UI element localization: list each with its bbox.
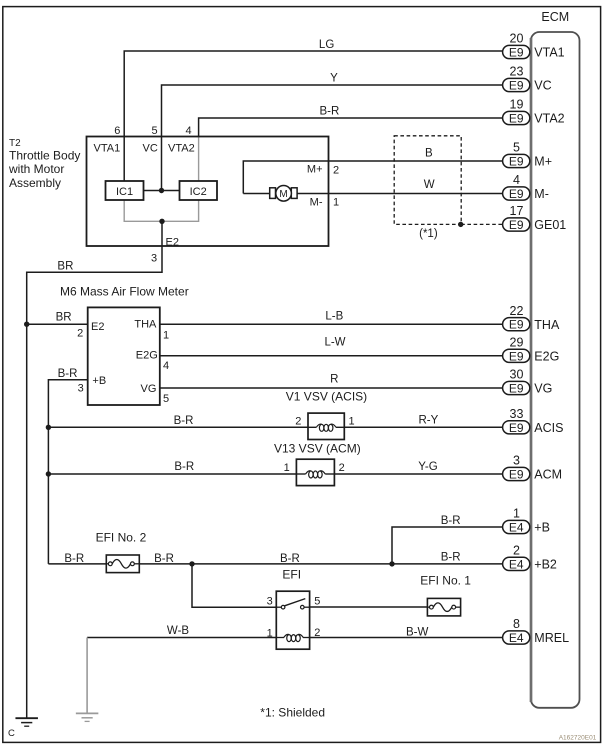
svg-text:EFI No. 1: EFI No. 1 bbox=[420, 574, 471, 588]
svg-text:BR: BR bbox=[57, 261, 73, 273]
svg-text:E2: E2 bbox=[166, 236, 179, 248]
svg-text:1: 1 bbox=[513, 507, 520, 521]
svg-text:GE01: GE01 bbox=[534, 218, 566, 232]
svg-text:W-B: W-B bbox=[167, 625, 189, 637]
svg-text:E2G: E2G bbox=[534, 349, 559, 363]
svg-text:(*1): (*1) bbox=[419, 228, 438, 240]
svg-text:B: B bbox=[425, 148, 433, 160]
svg-text:+B: +B bbox=[534, 521, 550, 535]
svg-text:3: 3 bbox=[267, 596, 273, 608]
svg-text:E2G: E2G bbox=[136, 349, 158, 361]
svg-text:2: 2 bbox=[333, 165, 339, 177]
svg-text:5: 5 bbox=[314, 595, 320, 607]
svg-text:1: 1 bbox=[284, 462, 290, 474]
svg-text:33: 33 bbox=[510, 407, 524, 421]
svg-text:M: M bbox=[279, 189, 287, 200]
svg-text:2: 2 bbox=[339, 462, 345, 474]
svg-text:E4: E4 bbox=[509, 631, 524, 645]
svg-text:B-R: B-R bbox=[174, 461, 194, 473]
svg-text:VTA2: VTA2 bbox=[534, 112, 564, 126]
svg-text:V13 VSV (ACM): V13 VSV (ACM) bbox=[274, 441, 361, 455]
svg-text:E4: E4 bbox=[509, 521, 524, 535]
svg-text:B-R: B-R bbox=[64, 553, 84, 565]
svg-text:3: 3 bbox=[513, 454, 520, 468]
svg-text:*1: Shielded: *1: Shielded bbox=[260, 706, 325, 720]
svg-text:B-R: B-R bbox=[441, 515, 461, 527]
svg-text:20: 20 bbox=[510, 32, 524, 46]
svg-text:2: 2 bbox=[77, 328, 83, 340]
svg-text:4: 4 bbox=[185, 125, 191, 137]
svg-text:6: 6 bbox=[114, 125, 120, 137]
svg-text:17: 17 bbox=[510, 204, 524, 218]
svg-text:T2: T2 bbox=[9, 138, 21, 149]
svg-text:ACIS: ACIS bbox=[534, 421, 563, 435]
svg-text:BR: BR bbox=[56, 312, 72, 324]
svg-text:5: 5 bbox=[163, 393, 169, 405]
svg-text:IC2: IC2 bbox=[190, 186, 207, 198]
svg-text:E9: E9 bbox=[509, 421, 524, 435]
svg-text:B-R: B-R bbox=[441, 552, 461, 564]
svg-text:EFI: EFI bbox=[282, 567, 301, 581]
svg-text:B-R: B-R bbox=[154, 553, 174, 565]
svg-text:22: 22 bbox=[510, 304, 524, 318]
svg-text:29: 29 bbox=[510, 336, 524, 350]
svg-text:E9: E9 bbox=[509, 46, 524, 60]
svg-text:19: 19 bbox=[510, 98, 524, 112]
svg-text:B-R: B-R bbox=[58, 368, 78, 380]
svg-text:A162720E01: A162720E01 bbox=[559, 735, 597, 742]
svg-text:LG: LG bbox=[319, 39, 334, 51]
svg-text:with Motor: with Motor bbox=[8, 162, 64, 176]
svg-text:E9: E9 bbox=[509, 155, 524, 169]
svg-text:M+: M+ bbox=[307, 164, 323, 176]
svg-text:5: 5 bbox=[513, 141, 520, 155]
svg-text:Y: Y bbox=[330, 73, 338, 85]
svg-text:E4: E4 bbox=[509, 557, 524, 571]
svg-text:3: 3 bbox=[151, 252, 157, 264]
svg-text:+B2: +B2 bbox=[534, 558, 557, 572]
svg-text:E9: E9 bbox=[509, 349, 524, 363]
svg-text:L-B: L-B bbox=[325, 311, 343, 323]
svg-text:R: R bbox=[330, 374, 338, 386]
svg-text:VTA2: VTA2 bbox=[168, 143, 195, 155]
svg-text:2: 2 bbox=[513, 544, 520, 558]
svg-text:VC: VC bbox=[534, 79, 551, 93]
svg-text:M-: M- bbox=[534, 187, 549, 201]
svg-text:VTA1: VTA1 bbox=[94, 143, 121, 155]
svg-text:M+: M+ bbox=[534, 155, 552, 169]
svg-text:EFI No. 2: EFI No. 2 bbox=[96, 531, 147, 545]
svg-text:M6 Mass Air Flow Meter: M6 Mass Air Flow Meter bbox=[60, 285, 189, 299]
svg-text:2: 2 bbox=[295, 416, 301, 428]
svg-text:1: 1 bbox=[163, 330, 169, 342]
svg-text:4: 4 bbox=[513, 173, 520, 187]
svg-text:B-W: B-W bbox=[406, 627, 429, 639]
svg-text:+B: +B bbox=[92, 375, 106, 387]
svg-text:4: 4 bbox=[163, 360, 169, 372]
svg-text:E9: E9 bbox=[509, 187, 524, 201]
svg-text:E9: E9 bbox=[509, 79, 524, 93]
svg-text:V1 VSV (ACIS): V1 VSV (ACIS) bbox=[286, 390, 367, 404]
svg-text:E9: E9 bbox=[509, 112, 524, 126]
svg-text:B-R: B-R bbox=[319, 105, 339, 117]
svg-text:30: 30 bbox=[510, 368, 524, 382]
svg-text:5: 5 bbox=[151, 125, 157, 137]
svg-text:Y-G: Y-G bbox=[418, 461, 437, 473]
svg-text:E2: E2 bbox=[91, 321, 104, 333]
svg-text:3: 3 bbox=[78, 383, 84, 395]
svg-text:W: W bbox=[424, 179, 435, 191]
svg-text:2: 2 bbox=[314, 627, 320, 639]
svg-text:VC: VC bbox=[143, 143, 158, 155]
svg-text:B-R: B-R bbox=[280, 553, 300, 565]
svg-text:E9: E9 bbox=[509, 318, 524, 332]
svg-text:23: 23 bbox=[510, 65, 524, 79]
svg-text:1: 1 bbox=[333, 197, 339, 209]
svg-text:B-R: B-R bbox=[174, 415, 194, 427]
svg-text:IC1: IC1 bbox=[116, 186, 133, 198]
svg-text:MREL: MREL bbox=[534, 631, 569, 645]
svg-text:Assembly: Assembly bbox=[9, 176, 61, 190]
svg-text:VTA1: VTA1 bbox=[534, 46, 564, 60]
svg-text:E9: E9 bbox=[509, 218, 524, 232]
svg-text:VG: VG bbox=[140, 383, 156, 395]
svg-text:VG: VG bbox=[534, 382, 552, 396]
svg-text:M-: M- bbox=[310, 197, 323, 209]
svg-text:Throttle Body: Throttle Body bbox=[9, 149, 80, 163]
svg-text:R-Y: R-Y bbox=[418, 415, 438, 427]
svg-text:1: 1 bbox=[349, 416, 355, 428]
svg-text:1: 1 bbox=[267, 627, 273, 639]
svg-text:THA: THA bbox=[534, 318, 560, 332]
svg-text:ECM: ECM bbox=[541, 10, 569, 24]
svg-text:8: 8 bbox=[513, 617, 520, 631]
svg-text:ACM: ACM bbox=[534, 468, 562, 482]
svg-text:C: C bbox=[8, 728, 15, 739]
svg-text:E9: E9 bbox=[509, 468, 524, 482]
svg-text:L-W: L-W bbox=[324, 337, 345, 349]
svg-text:E9: E9 bbox=[509, 382, 524, 396]
svg-text:THA: THA bbox=[134, 319, 157, 331]
